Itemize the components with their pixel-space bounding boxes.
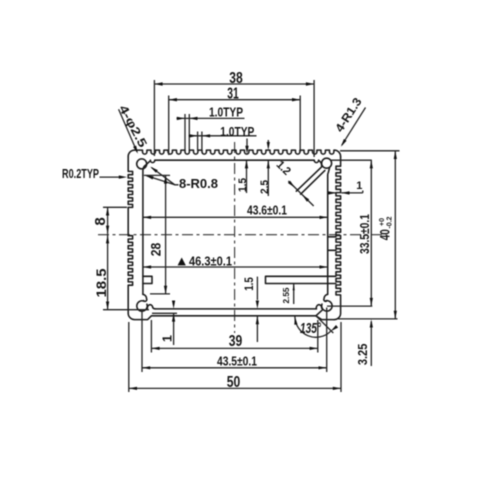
right wall inner face <box>327 175 329 294</box>
dimension 1 (plate end step) <box>173 302 175 306</box>
top-right boss support strut outer line <box>296 160 321 191</box>
svg-text:28: 28 <box>148 243 164 257</box>
bottom-left plate mouth bump <box>147 305 155 309</box>
svg-text:-0.2: -0.2 <box>387 216 394 228</box>
right wall card slot <box>328 237 336 251</box>
dimension 2.5 (top wall at rib) <box>267 140 269 143</box>
top-right boss support strut inner line <box>301 170 325 194</box>
inner surface of top wall <box>155 159 314 161</box>
svg-text:2.55: 2.55 <box>282 287 291 304</box>
svg-text:50: 50 <box>227 374 241 391</box>
svg-text:31: 31 <box>227 86 239 103</box>
enclosure outer profile: right wall with fin grooves <box>334 157 340 320</box>
base plate top surface <box>155 308 316 310</box>
svg-text:43.5±0.1: 43.5±0.1 <box>217 354 257 368</box>
left wall PCB rail stub <box>143 276 152 283</box>
enclosure outer profile: bottom edge with recessed base plate underside <box>128 313 334 319</box>
bottom-right screw boss C-channel <box>322 301 332 311</box>
svg-text:39: 39 <box>229 333 243 350</box>
bottom-left screw boss C-channel <box>137 301 147 311</box>
dimension 28 (inner wall face height) <box>165 175 167 294</box>
svg-text:3.25: 3.25 <box>356 344 370 366</box>
dimension 43.5 +/-0.1 (boss center distance) <box>142 367 327 369</box>
right internal PCB rail <box>266 276 336 283</box>
base plate right end 135deg chamfer <box>316 309 323 315</box>
dimension 135 deg chamfer angle <box>316 316 333 333</box>
svg-text:1.0TYP: 1.0TYP <box>209 104 243 119</box>
label 4-R1.3 with leader to corner radius <box>342 108 366 146</box>
svg-text:33.5±0.1: 33.5±0.1 <box>358 214 372 254</box>
screw hole 4-phi2.5 top-left <box>137 159 147 169</box>
dimension 2.55 (rail bottom to boss ledge) <box>293 284 295 304</box>
svg-text:8: 8 <box>92 217 109 225</box>
bottom-right plate mouth bump <box>316 305 322 309</box>
svg-text:1.5: 1.5 <box>244 277 256 291</box>
svg-text:R0.2TYP: R0.2TYP <box>62 167 99 181</box>
bottom-left boss upper lip <box>143 294 147 301</box>
svg-text:1.5: 1.5 <box>237 178 249 192</box>
dimension 1.0TYP (fin groove width) <box>177 117 245 119</box>
svg-text:1: 1 <box>356 180 362 192</box>
top-left boss throat to left wall face <box>143 161 150 175</box>
dimension 1.5 (top wall at groove) <box>246 139 248 147</box>
svg-text:18.5: 18.5 <box>93 268 109 297</box>
dimension 40 +0/-0.2 (overall height) <box>338 151 400 319</box>
dimension 1.2 (strut thickness) <box>288 181 313 206</box>
enclosure outer profile: left wall with fin grooves <box>128 157 132 313</box>
top-left boss mouth bump <box>150 160 154 162</box>
svg-text:1: 1 <box>161 335 175 342</box>
dimension 31 <box>169 99 301 101</box>
enclosure outer profile: top edge with cooling fins <box>128 150 340 157</box>
svg-text:8-R0.8: 8-R0.8 <box>179 176 218 191</box>
screw hole 4-phi2.5 top-right <box>322 158 332 168</box>
svg-text:1.0TYP: 1.0TYP <box>220 124 254 139</box>
svg-text:40: 40 <box>378 229 393 240</box>
dimension 18.5 (centerline to plate top) <box>107 234 109 310</box>
svg-text:43.6±0.1: 43.6±0.1 <box>247 204 287 218</box>
dimension 50 (overall width) <box>129 387 341 389</box>
dimension 8 (left wall smooth band) <box>107 207 109 234</box>
dimension 1 (right fin depth) <box>328 191 363 193</box>
dimension 39 (plate bottom width) <box>151 347 317 349</box>
top-right boss throat to right wall face <box>328 168 330 176</box>
label 4-phi2.5 with leader to corner screw hole <box>119 109 138 152</box>
dimension 43.6 +/-0.1 (inner width) <box>143 216 328 218</box>
dimension 1.5 (base plate thickness) <box>256 277 258 300</box>
horizontal centerline <box>98 234 386 236</box>
dimension 38 (top) <box>154 83 314 85</box>
top-right boss mouth bump <box>314 160 318 162</box>
svg-text:+0: +0 <box>379 218 386 226</box>
svg-text:2.5: 2.5 <box>259 180 271 194</box>
dimension 1.0TYP (fin rib width) <box>189 135 257 137</box>
dimension 46.3 +/-0.1 with datum triangle <box>143 266 328 268</box>
label 8-R0.8 with leaders to boss fillets <box>152 168 179 185</box>
bottom-right boss upper lip <box>324 294 328 301</box>
dimension 33.5 +/-0.1 (inner top to boss center) <box>327 160 372 306</box>
vertical centerline <box>234 142 236 333</box>
left wall inner face <box>142 175 144 294</box>
dimension 3.25 (boss center to bottom face) <box>370 322 372 367</box>
svg-text:46.3±0.1: 46.3±0.1 <box>189 255 232 269</box>
label R0.2TYP with leader to first left fin <box>100 176 120 178</box>
